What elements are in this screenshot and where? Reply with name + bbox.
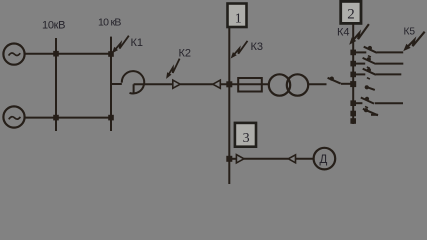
svg-text:10кВ: 10кВ: [42, 20, 65, 32]
svg-text:10 кВ: 10 кВ: [98, 17, 121, 29]
svg-text:1: 1: [235, 11, 242, 26]
svg-text:Д: Д: [320, 154, 328, 166]
svg-text:К4: К4: [337, 26, 350, 38]
svg-text:К1: К1: [131, 37, 144, 49]
svg-text:К3: К3: [251, 41, 264, 53]
svg-text:К5: К5: [404, 26, 416, 37]
svg-text:3: 3: [243, 131, 250, 146]
svg-text:К2: К2: [179, 47, 192, 59]
svg-text:2: 2: [347, 7, 355, 23]
